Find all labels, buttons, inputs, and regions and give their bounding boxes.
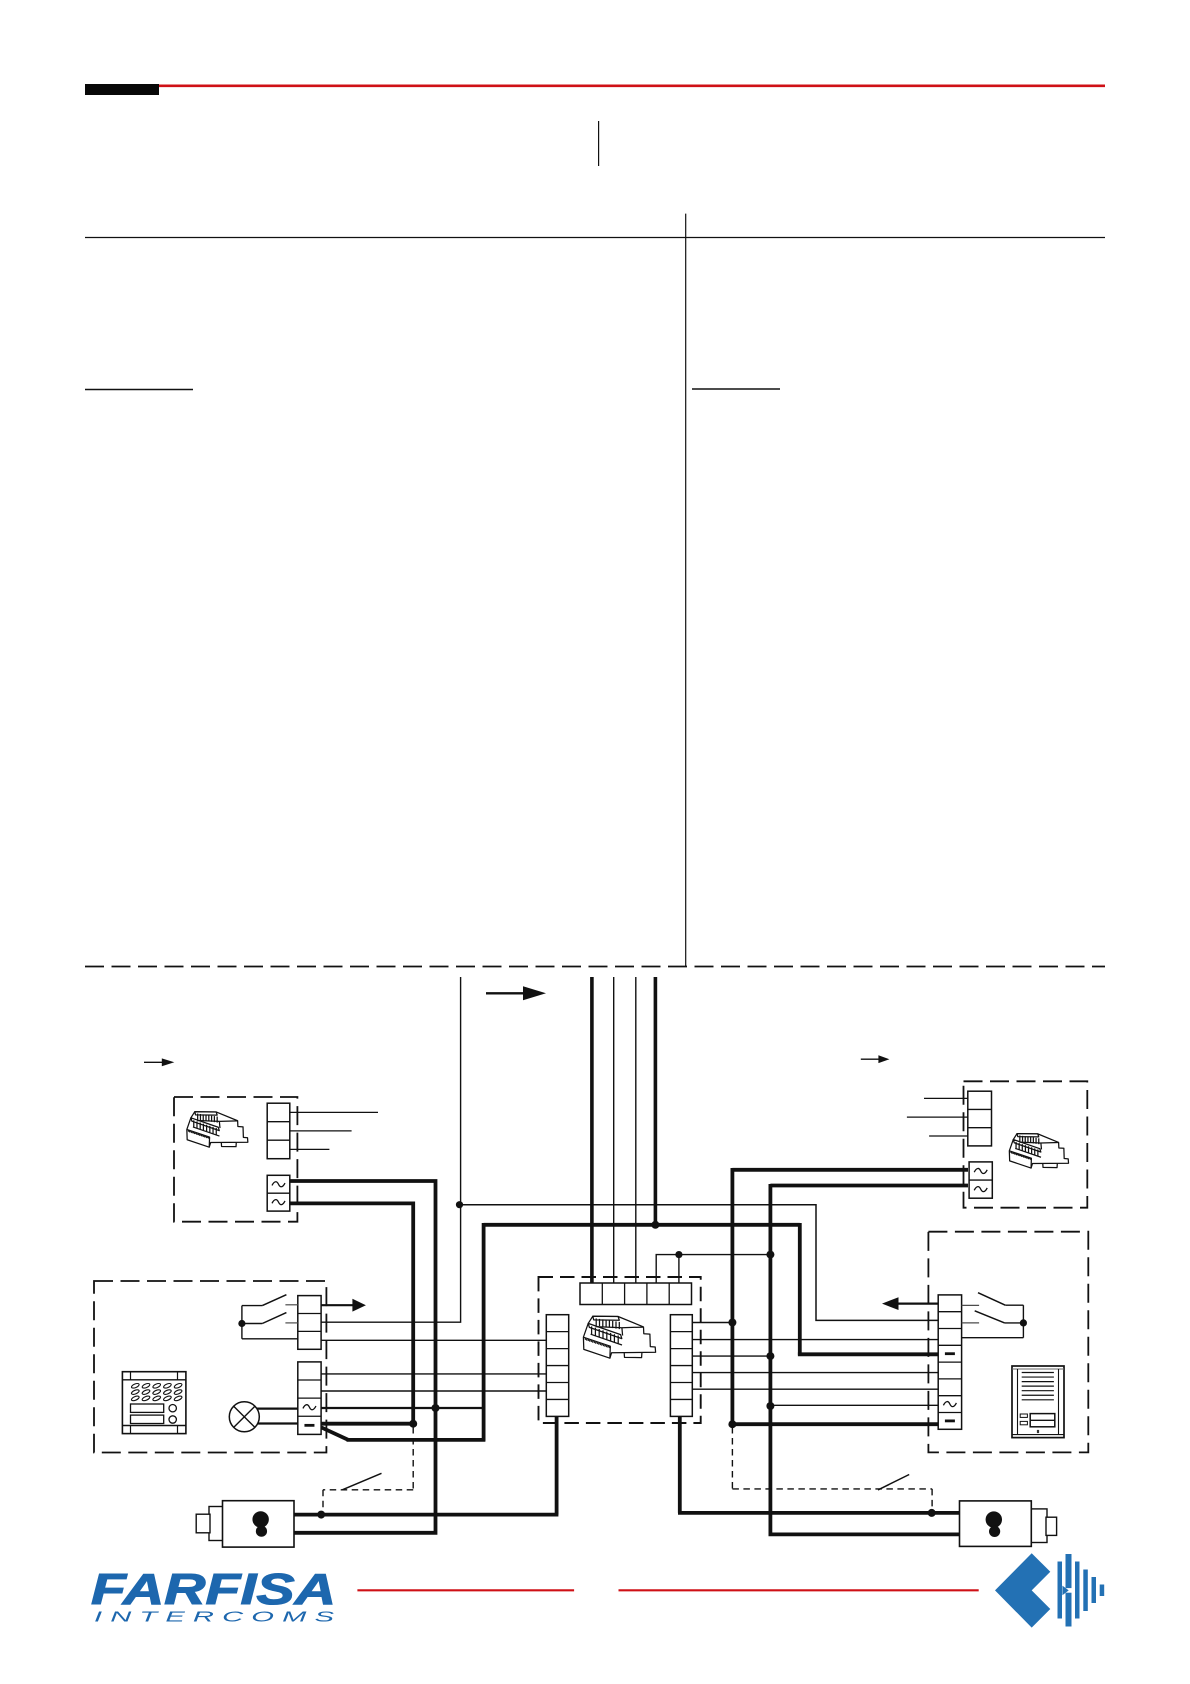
svg-text:I N T E R C O M S: I N T E R C O M S	[94, 1609, 334, 1626]
svg-text:FARFISA: FARFISA	[91, 1565, 336, 1614]
